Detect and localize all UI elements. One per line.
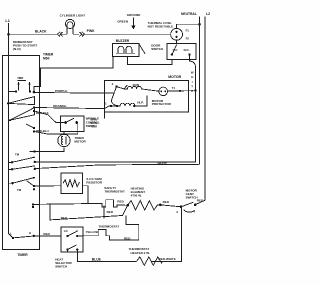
wire under lamp (61, 33, 80, 35)
svg-text:MOTOR: MOTOR (74, 140, 86, 144)
hi-limit thermostat drop (126, 216, 139, 241)
svg-text:N.C.: N.C. (173, 48, 179, 52)
svg-text:F1: F1 (186, 29, 190, 33)
wire resistor right drop (83, 186, 89, 203)
neutral rail + lower white horizontal (35, 17, 200, 169)
svg-text:RED: RED (197, 199, 204, 203)
svg-text:L1: L1 (5, 19, 9, 23)
svg-text:THERMOSTAT: THERMOSTAT (98, 225, 119, 229)
svg-text:HEATER 2 W.: HEATER 2 W. (131, 251, 150, 255)
svg-text:T: T (191, 85, 193, 89)
wire ORANGE (34, 106, 109, 109)
wire L1 rail (9, 23, 14, 238)
svg-text:TM: TM (15, 153, 20, 157)
svg-text:YELLOW: YELLOW (86, 230, 99, 234)
resistor box (61, 173, 103, 194)
wire BLACK (9, 33, 58, 35)
svg-text:CYLINDER LIGHT: CYLINDER LIGHT (60, 13, 86, 17)
svg-text:H: H (29, 231, 31, 235)
lamp cylinder light (60, 13, 86, 34)
ground symbol green (117, 13, 141, 29)
connector right (79, 32, 84, 37)
wire fuse to neutral rail (177, 24, 200, 28)
svg-text:4750 W.: 4750 W. (131, 194, 142, 198)
wire PINK to thermal fuse (82, 33, 170, 35)
wire buzzer to door switch NC (128, 57, 172, 65)
svg-text:W: W (191, 70, 194, 74)
motor cent switch (176, 188, 204, 214)
svg-text:L: L (10, 232, 12, 236)
thermal fuse F1 F2 (148, 21, 190, 40)
junction L1 (7, 33, 10, 36)
timer cam 2 (10, 108, 35, 121)
svg-text:RED: RED (163, 200, 170, 204)
door switch (151, 44, 196, 60)
svg-text:GROUND: GROUND (127, 13, 141, 17)
heating element (128, 187, 181, 210)
svg-text:RED: RED (61, 216, 68, 220)
junction neutral (198, 23, 201, 26)
svg-text:PINK: PINK (87, 29, 95, 33)
svg-text:F2: F2 (186, 36, 190, 40)
timer cam terminals (26, 106, 35, 132)
svg-text:NOT RESETABLE: NOT RESETABLE (148, 25, 174, 29)
svg-text:T1: T1 (172, 86, 176, 90)
wire protector to white rail (168, 90, 196, 93)
wire PURPLE (34, 92, 114, 95)
safety tap (103, 206, 105, 219)
svg-text:ORANGE: ORANGE (53, 104, 66, 108)
push to start switch actuators (9, 76, 36, 93)
heat selector switch (55, 227, 83, 269)
svg-text:TMR: TMR (17, 76, 23, 80)
motor box corner stub + terminal labels (104, 112, 106, 118)
svg-text:1: 1 (105, 102, 107, 106)
junction heater (126, 204, 129, 207)
svg-text:NEUTRAL: NEUTRAL (181, 12, 197, 16)
svg-text:RED-WHITE: RED-WHITE (159, 257, 176, 261)
wire timer to heat selector RED (34, 235, 61, 237)
timer motor (30, 131, 87, 153)
svg-text:2: 2 (112, 82, 114, 86)
L2 rail (196, 17, 205, 205)
connector left (57, 32, 62, 37)
motor terminal 2 (115, 85, 117, 87)
svg-text:RED: RED (107, 210, 114, 214)
svg-text:SWITCH: SWITCH (151, 47, 163, 51)
motor protector (152, 86, 176, 106)
motor start winding (105, 96, 147, 108)
wrinkle control switch (61, 116, 100, 132)
svg-text:E: E (191, 89, 193, 93)
svg-text:H: H (191, 75, 193, 79)
svg-text:RED-BLK: RED-BLK (36, 111, 49, 115)
svg-text:2: 2 (176, 210, 178, 214)
svg-text:L2: L2 (206, 12, 210, 16)
motor run winding (117, 83, 159, 91)
thermostat heater (129, 247, 182, 265)
wire RED-BLU (34, 124, 78, 134)
svg-text:THERMOSTAT: THERMOSTAT (104, 190, 125, 194)
timer cam 1 (8, 97, 35, 105)
svg-text:N.O.: N.O. (184, 48, 190, 52)
momentary push to start label (13, 40, 37, 51)
svg-text:WHITE: WHITE (158, 161, 168, 165)
yellow row thermostat (83, 225, 139, 241)
timer bottom switch (10, 231, 35, 239)
svg-text:RED: RED (124, 237, 131, 241)
svg-text:M60: M60 (43, 56, 50, 60)
svg-text:PURPLE: PURPLE (55, 89, 67, 93)
svg-text:4: 4 (193, 210, 195, 214)
svg-text:TM: TM (17, 188, 22, 192)
svg-text:RED: RED (117, 199, 124, 203)
svg-text:HLP.: HLP. (137, 100, 144, 104)
svg-text:RESISTOR: RESISTOR (86, 180, 102, 184)
svg-text:RED-BLU: RED-BLU (36, 129, 49, 133)
svg-text:C: C (76, 229, 78, 233)
wire BLUE (77, 250, 136, 262)
wire resistor left (34, 185, 61, 187)
wire fuse to door switch (176, 40, 178, 44)
timer contact arms mid (9, 153, 36, 209)
wire WHITE door switch drop to timer (35, 55, 196, 162)
svg-text:BLACK: BLACK (35, 30, 47, 34)
svg-text:RED: RED (43, 232, 50, 236)
wire buzzer feed staircase from timer (34, 57, 113, 93)
net WHITE vertical letters (191, 70, 194, 93)
svg-text:MOTOR: MOTOR (168, 75, 181, 79)
motor centrifugal arm (111, 87, 120, 106)
svg-text:SWITCH: SWITCH (55, 265, 67, 269)
buzzer (113, 39, 146, 56)
long red line (50, 204, 128, 221)
motor box (105, 75, 189, 112)
wire RED-BLK (34, 111, 66, 123)
safety thermostat row (32, 186, 128, 207)
svg-text:SWITCH: SWITCH (86, 124, 97, 128)
svg-text:BUZZER: BUZZER (116, 39, 130, 43)
svg-text:PROTECTOR: PROTECTOR (152, 102, 172, 106)
svg-text:GREEN: GREEN (117, 20, 128, 24)
wire cent switch down to red-white (151, 207, 181, 262)
svg-text:(N-O): (N-O) (13, 47, 21, 51)
svg-text:TIMER: TIMER (17, 253, 28, 257)
timer box (3, 53, 54, 257)
svg-text:BLUE: BLUE (92, 258, 102, 262)
